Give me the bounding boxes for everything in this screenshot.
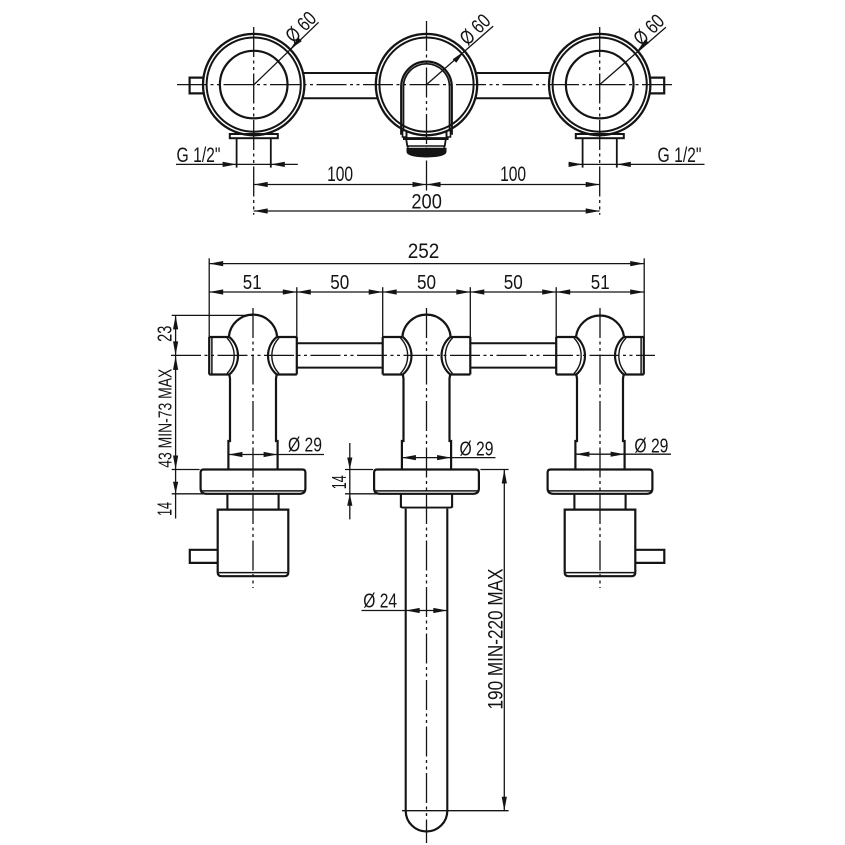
extension line ball top bbox=[172, 314, 253, 316]
diameter 60 leader middle bbox=[427, 26, 494, 85]
dim line 14 middle bbox=[347, 443, 352, 519]
dim text 200 bbox=[411, 189, 442, 213]
centerline horizontal bottom view bbox=[171, 354, 655, 356]
G half inch dim right bbox=[569, 162, 705, 167]
right supply stub bbox=[649, 78, 664, 94]
G half inch dim left bbox=[176, 162, 298, 167]
dim line 100 left bbox=[254, 182, 427, 187]
connecting tube left bbox=[297, 343, 383, 367]
right wall plate bbox=[576, 134, 624, 138]
svg-text:51: 51 bbox=[243, 271, 262, 294]
right escutcheon flange bbox=[548, 470, 653, 494]
dim text 50 c bbox=[504, 271, 523, 294]
dim text dia24 bbox=[363, 590, 397, 613]
right valve body bbox=[556, 316, 644, 470]
spout tube bbox=[406, 509, 448, 832]
svg-text:Ø 60: Ø 60 bbox=[629, 10, 669, 50]
svg-text:50: 50 bbox=[504, 271, 523, 294]
extension line flange bottom middle bbox=[345, 493, 401, 495]
dim text 190 MIN-220 MAX bbox=[485, 569, 508, 710]
G half inch label left bbox=[177, 144, 221, 167]
extension line spout end bbox=[402, 810, 509, 812]
dim line 43-73 bbox=[173, 355, 178, 469]
dim text dia29 middle bbox=[460, 438, 494, 460]
dim line dia29 left bbox=[228, 452, 324, 457]
centerline vertical spout bbox=[426, 21, 428, 191]
left supply stub bbox=[190, 78, 205, 94]
diameter 60 label left bbox=[281, 8, 321, 48]
left valve neck bbox=[227, 494, 278, 510]
spout collar top edge bbox=[403, 137, 449, 140]
svg-text:G 1/2": G 1/2" bbox=[658, 144, 702, 167]
extension line flange top left bbox=[172, 469, 200, 471]
left escutcheon flange bbox=[201, 470, 306, 494]
centerline vertical left valve bbox=[252, 308, 254, 588]
svg-text:14: 14 bbox=[329, 475, 351, 489]
dim text dia29 right bbox=[634, 435, 668, 457]
spout collar bbox=[406, 140, 445, 148]
centerline horizontal top view bbox=[177, 84, 674, 86]
wall bar left segment bbox=[303, 73, 379, 98]
right handle rosette outer bbox=[549, 34, 650, 135]
svg-text:43 MIN-73 MAX: 43 MIN-73 MAX bbox=[154, 369, 175, 468]
dim text 23 bbox=[154, 326, 176, 342]
dim line 14 left bbox=[173, 470, 178, 519]
spout inner arc bbox=[404, 64, 450, 132]
extension lines 51-50 chain bbox=[297, 287, 556, 337]
dim text 50 a bbox=[330, 271, 349, 294]
svg-text:Ø 29: Ø 29 bbox=[634, 435, 668, 457]
dim line 51-50 chain bbox=[209, 289, 644, 294]
left supply pipe bbox=[237, 138, 271, 167]
dim text 252 bbox=[408, 240, 440, 263]
diameter 60 label middle bbox=[456, 10, 496, 50]
dim text dia29 left bbox=[288, 435, 322, 457]
dim text 14 middle bbox=[329, 475, 351, 489]
left handle lever bbox=[190, 510, 288, 577]
dim text 100 right bbox=[500, 162, 526, 186]
svg-text:51: 51 bbox=[591, 271, 610, 294]
left handle rosette ring bbox=[207, 38, 301, 132]
right valve neck bbox=[574, 494, 625, 510]
centerline vertical right handle bbox=[599, 27, 601, 215]
svg-text:Ø 24: Ø 24 bbox=[363, 590, 397, 613]
dim line 100 right bbox=[427, 182, 600, 187]
centerline vertical left handle bbox=[253, 27, 255, 215]
spout outer profile bbox=[401, 62, 452, 135]
svg-text:Ø 60: Ø 60 bbox=[281, 8, 321, 48]
diameter 60 label right bbox=[629, 10, 669, 50]
dim text 14 left bbox=[154, 502, 176, 516]
G half inch label right bbox=[658, 144, 702, 167]
right supply pipe bbox=[583, 138, 617, 167]
extension line flange top right bbox=[480, 469, 508, 471]
extension line flange top middle bbox=[345, 469, 373, 471]
centerline vertical right valve bbox=[599, 308, 601, 588]
centerline vertical middle spout bbox=[426, 308, 428, 843]
right handle lever bbox=[565, 510, 665, 577]
dim line dia29 right bbox=[575, 452, 671, 457]
diameter 60 leader left bbox=[254, 22, 319, 85]
svg-text:50: 50 bbox=[330, 271, 349, 294]
dim line 23 bbox=[173, 315, 178, 355]
svg-text:100: 100 bbox=[500, 162, 526, 186]
dim line 252 bbox=[209, 261, 644, 266]
spout base bracket right bbox=[447, 130, 452, 137]
connecting tube right bbox=[470, 343, 556, 367]
middle rosette ring bbox=[379, 38, 473, 132]
left handle rosette outer bbox=[203, 34, 304, 135]
dim line dia29 middle bbox=[402, 455, 496, 460]
middle escutcheon flange bbox=[374, 470, 479, 494]
middle rosette outer bbox=[376, 34, 477, 135]
spout base bracket left bbox=[401, 130, 406, 137]
dim line 200 bbox=[254, 208, 600, 213]
svg-text:252: 252 bbox=[408, 240, 440, 263]
left wall plate bbox=[230, 134, 278, 138]
dim text 43 MIN-73 MAX bbox=[154, 369, 175, 468]
svg-text:G 1/2": G 1/2" bbox=[177, 144, 221, 167]
dim line dia24 bbox=[362, 608, 448, 613]
svg-text:190 MIN-220 MAX: 190 MIN-220 MAX bbox=[485, 569, 508, 710]
svg-text:100: 100 bbox=[327, 162, 353, 186]
right handle rosette ring bbox=[553, 38, 647, 132]
svg-text:14: 14 bbox=[154, 502, 176, 516]
svg-text:Ø 29: Ø 29 bbox=[460, 438, 494, 460]
dim text 50 b bbox=[417, 271, 436, 294]
svg-text:Ø 60: Ø 60 bbox=[456, 10, 496, 50]
left handle knob circle bbox=[220, 51, 288, 119]
svg-text:200: 200 bbox=[411, 189, 442, 213]
left valve body bbox=[209, 315, 297, 470]
dim text 51 right bbox=[591, 271, 610, 294]
extension line flange bottom left bbox=[172, 493, 229, 495]
dim line 190-220 bbox=[502, 470, 507, 811]
spout pipe sides bbox=[407, 131, 447, 138]
middle spout neck bbox=[401, 494, 452, 508]
svg-text:50: 50 bbox=[417, 271, 436, 294]
svg-text:23: 23 bbox=[154, 326, 176, 342]
spout aerator tip bbox=[407, 148, 446, 157]
extension lines 252 bbox=[209, 258, 644, 337]
dim text 51 left bbox=[243, 271, 262, 294]
wall bar right segment bbox=[475, 73, 552, 98]
right handle knob circle bbox=[566, 51, 634, 119]
middle spout body bbox=[383, 315, 471, 470]
diameter 60 leader right bbox=[600, 27, 666, 84]
dim text 100 left bbox=[327, 162, 353, 186]
svg-text:Ø 29: Ø 29 bbox=[288, 435, 322, 457]
